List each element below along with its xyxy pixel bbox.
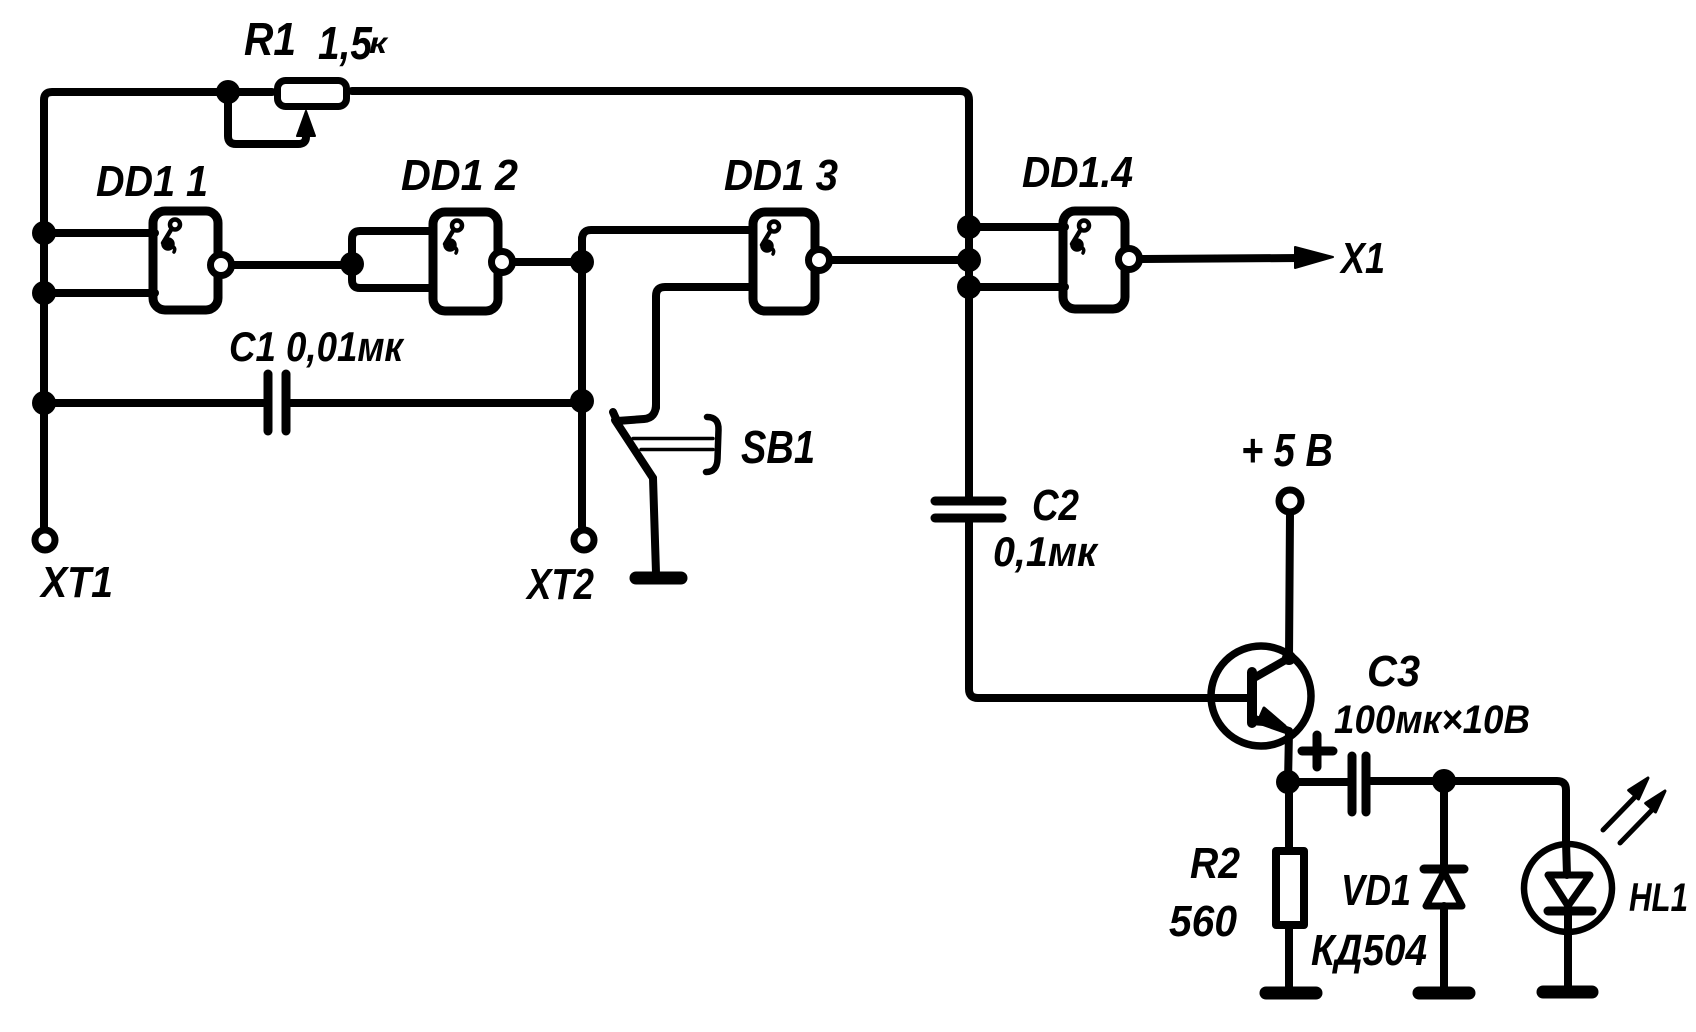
ground under VD1 [1419,987,1469,1000]
LED HL1 wire in [1566,842,1567,875]
transistor emitter arrowhead [1257,708,1285,726]
R1 wiper arrowhead [297,111,315,136]
wire DD1.3 out to main vertical [831,256,969,264]
transistor collector fillet [1282,651,1296,665]
svg-text:X1: X1 [1339,234,1385,283]
svg-text:КД504: КД504 [1311,926,1427,975]
wire C3 to VD1 node [1371,777,1444,785]
svg-text:C3: C3 [1367,647,1420,696]
node C1 right [570,389,594,413]
node main vertical bottom [957,275,981,299]
gate DD1.2 output bubble [492,252,513,273]
node emitter junction [1276,770,1300,794]
LED HL1 wire out [1564,911,1572,988]
gate DD1.3 output bubble [809,250,830,271]
svg-text:DD1 2: DD1 2 [401,151,518,200]
wire emitter down [1288,731,1289,782]
svg-text:DD1 3: DD1 3 [724,151,838,200]
ground under R2 [1266,987,1316,1000]
svg-text:XT2: XT2 [525,560,595,609]
wire DD1.2 out to node [514,258,582,266]
gate DD1.4 ampersand glyph [1072,221,1089,254]
LED HL1 circle [1524,844,1612,932]
transistor VT1 circle [1211,646,1311,746]
transistor emitter lead [1252,718,1289,731]
svg-text:XT1: XT1 [38,558,113,607]
capacitor C3 plates [1348,756,1357,812]
wire C1 left [44,399,263,407]
gate DD1.1 [153,211,218,310]
node DD1.1 in A [32,221,56,245]
wire C2 to transistor base [969,518,1248,698]
svg-text:C2: C2 [1032,481,1079,530]
ground under SB1 [636,572,681,585]
wire DD1.4 input B [969,283,1065,291]
wire DD1.2 input bracket [352,231,433,288]
wire VD1 node to HL1 corner [1444,781,1566,842]
svg-text:DD1 1: DD1 1 [96,157,208,206]
gate DD1.3 [753,212,815,311]
svg-text:HL1: HL1 [1629,876,1688,920]
svg-text:560: 560 [1169,897,1237,946]
terminal XT2 [574,530,594,550]
svg-text:0,1мк: 0,1мк [993,528,1099,575]
wire X1 output [1141,258,1300,259]
svg-text:C1 0,01мк: C1 0,01мк [229,323,404,370]
node DD1.2 out [570,250,594,274]
gate DD1.2 [433,212,498,311]
wire +5V to collector [1289,513,1290,658]
gate DD1.2 ampersand glyph [445,221,462,254]
gate DD1.3 ampersand glyph [762,222,779,255]
C3 plus sign [1302,735,1333,767]
terminal XT1 [35,530,55,550]
wire top to right corner [352,91,969,497]
svg-text:к: к [369,27,389,60]
switch SB1 plunger lines [633,437,713,441]
capacitor C2 plates [935,497,1002,506]
wire to C3 [1288,778,1348,786]
svg-text:R2: R2 [1190,839,1240,888]
svg-text:SB1: SB1 [741,421,815,473]
svg-text:1,5: 1,5 [318,17,373,69]
node junction R1 left [216,80,240,104]
gate DD1.4 [1063,211,1125,309]
svg-text:DD1.4: DD1.4 [1022,148,1133,197]
node main vertical mid [957,248,981,272]
wire node down to XT2 [578,238,586,527]
wire DD1.3 input B to SB1 [656,287,751,408]
node VD1 top [1432,769,1456,793]
svg-text:VD1: VD1 [1341,866,1411,915]
node main vertical top [957,215,981,239]
resistor R2 [1285,782,1293,851]
transistor base bar [1247,672,1257,723]
node DD1.1 in B [32,281,56,305]
arrowhead X1 [1295,247,1333,268]
switch SB1 lever wire down [653,478,656,573]
switch SB1 lever [615,420,653,478]
wire DD1.4 input A [969,223,1065,231]
resistor R1 [278,81,347,107]
gate DD1.1 ampersand glyph [163,220,180,253]
LED light arrow 1 [1603,796,1636,830]
wire top-left loop [44,92,272,527]
wire node up to DD1.3 input A [582,230,751,240]
capacitor C1 plates [264,374,273,431]
switch SB1 cap bracket [706,417,719,472]
wire C1 right [291,399,582,407]
svg-text:+ 5 В: + 5 В [1241,424,1333,476]
LED HL1 triangle [1548,875,1590,906]
svg-text:100мк×10В: 100мк×10В [1334,698,1530,742]
svg-text:R1: R1 [244,13,296,65]
R1 wiper wire [228,96,306,144]
node C1 left [32,391,56,415]
LED HL1 cathode bar [1548,907,1592,916]
gate DD1.4 output bubble [1119,249,1140,270]
switch SB1 fixed contact [613,404,656,421]
LED light arrow 2 [1620,809,1653,843]
wire DD1.1 input A [44,229,155,237]
transistor collector lead [1254,658,1289,678]
wire DD1.1 out to DD1.2 [234,261,352,269]
terminal +5V [1279,490,1301,512]
gate DD1.1 output bubble [211,255,232,276]
diode VD1 [1440,781,1448,866]
node DD1.2 input join [340,252,364,276]
wire DD1.1 input B [44,289,155,297]
ground under HL1 [1543,986,1592,999]
